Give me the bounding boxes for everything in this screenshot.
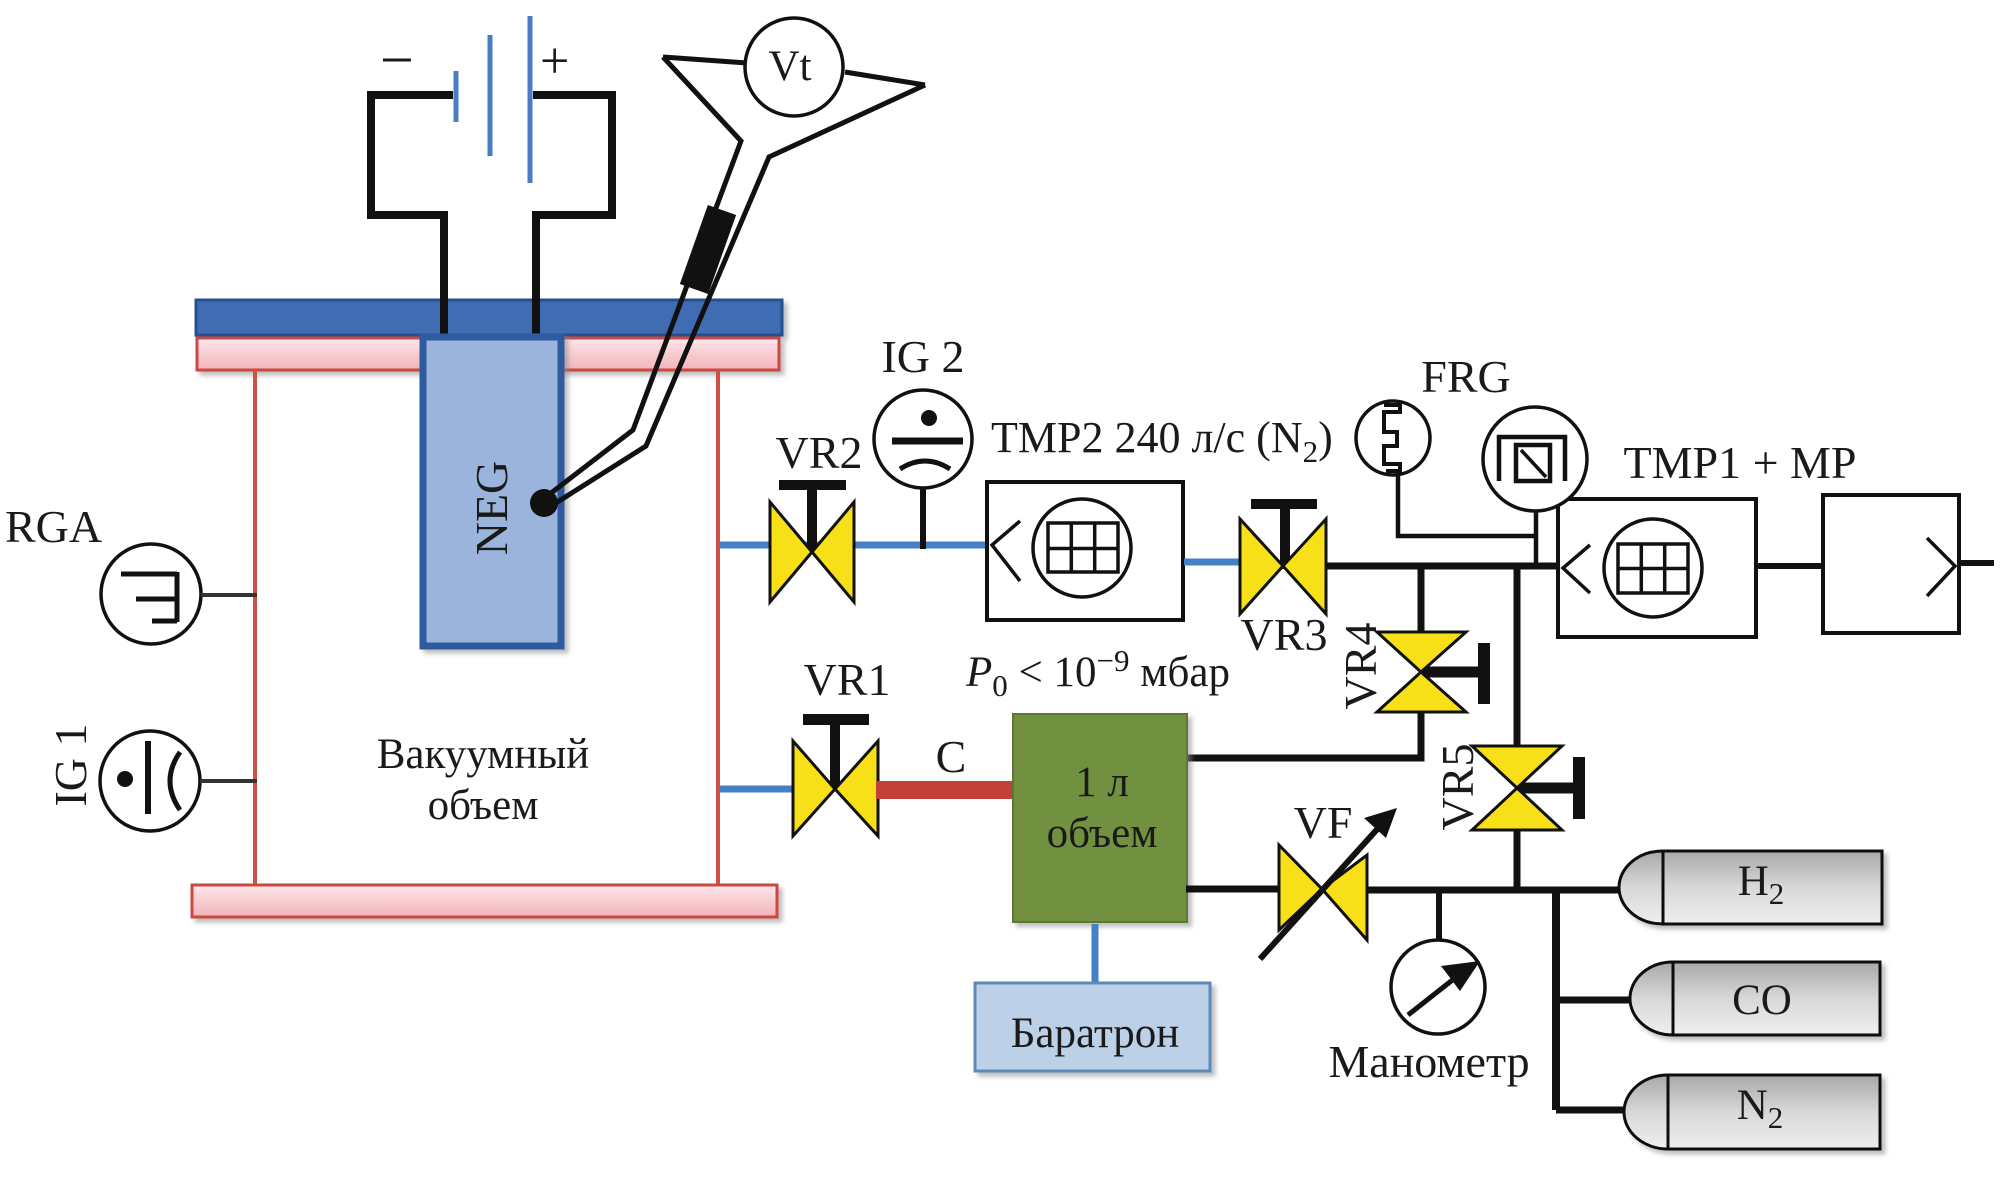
valve VR5 (vertical) xyxy=(1472,746,1585,830)
battery plate long 2 xyxy=(528,16,533,183)
manometer stem xyxy=(1436,890,1442,941)
TMP2 rotor grid xyxy=(1048,523,1118,572)
svg-text:VF: VF xyxy=(1294,797,1353,848)
TMP2 rotor circle xyxy=(1033,499,1131,597)
svg-text:VR3: VR3 xyxy=(1241,609,1328,660)
svg-text:Vt: Vt xyxy=(769,43,812,90)
pipe VR5 to manifold xyxy=(1514,830,1521,890)
chamber left wall xyxy=(253,370,257,885)
TMP1 rotor grid xyxy=(1618,544,1688,593)
1 L volume green box xyxy=(1013,714,1187,922)
svg-text:IG 2: IG 2 xyxy=(881,331,964,382)
RGA gauge circle xyxy=(101,544,201,644)
IG2 gauge circle xyxy=(874,390,972,488)
TMP2 box xyxy=(987,482,1183,620)
thermocouple link right to meter xyxy=(845,72,925,85)
IG1 connector wire xyxy=(200,779,257,783)
svg-text:Вакуумный: Вакуумный xyxy=(377,731,590,778)
svg-text:VR2: VR2 xyxy=(776,427,863,478)
RGA connector wire xyxy=(201,593,257,597)
TMP2 inlet chevron xyxy=(992,521,1020,581)
valve VR3 xyxy=(1240,499,1326,614)
gas manifold horizontal pipe xyxy=(1367,887,1622,894)
thermocouple funnel left outline xyxy=(542,57,741,500)
valve VR1 xyxy=(793,714,878,836)
thermocouple sleeve xyxy=(694,210,722,289)
gas manifold vertical pipe xyxy=(1552,890,1560,1110)
Baratron box xyxy=(975,983,1210,1071)
TMP1 box xyxy=(1558,499,1756,637)
valve VR2 xyxy=(770,480,854,602)
svg-text:TMP1 + MP: TMP1 + MP xyxy=(1623,437,1856,488)
chamber top pink bar xyxy=(197,338,779,370)
IG2 stem xyxy=(920,488,926,549)
CO branch pipe xyxy=(1556,997,1630,1004)
IG1 symbol arc xyxy=(170,752,180,810)
MP symbol diagonal xyxy=(1521,450,1546,477)
pipe 1L volume to VF xyxy=(1186,886,1284,893)
wire battery left to NEG xyxy=(371,95,453,345)
CO gas cylinder xyxy=(1630,962,1880,1035)
svg-text:IG 1: IG 1 xyxy=(45,723,96,806)
wire battery right to NEG xyxy=(533,95,612,345)
TMP1 inlet chevron xyxy=(1563,545,1590,593)
battery plate short (negative) xyxy=(454,71,459,122)
thermocouple contact dot xyxy=(530,489,558,517)
svg-text:+: + xyxy=(540,33,569,90)
exhaust line xyxy=(1959,560,1994,566)
Baratron stem (blue) xyxy=(1092,924,1099,983)
svg-text:объем: объем xyxy=(428,782,539,829)
MP symbol outer xyxy=(1499,437,1565,481)
NEG block xyxy=(423,337,561,646)
pipe VR4 to 1L volume xyxy=(1186,712,1421,758)
N2 branch pipe xyxy=(1556,1107,1626,1114)
backing pump box MP xyxy=(1823,495,1959,633)
svg-text:FRG: FRG xyxy=(1421,351,1510,402)
battery plate long 1 xyxy=(488,35,493,156)
manometer gauge circle xyxy=(1391,940,1485,1034)
pipe TMP1 to backing pump xyxy=(1756,563,1823,569)
IG1 symbol bar xyxy=(145,741,151,814)
svg-text:объем: объем xyxy=(1047,810,1158,857)
N2 gas cylinder xyxy=(1624,1075,1880,1149)
FRG gauge circle xyxy=(1356,401,1430,475)
H2 gas cylinder xyxy=(1619,851,1882,924)
Vt meter circle xyxy=(745,18,843,116)
TMP1 rotor circle xyxy=(1604,519,1702,617)
svg-text:VR4: VR4 xyxy=(1335,623,1386,710)
svg-text:VR1: VR1 xyxy=(804,654,891,705)
RGA symbol xyxy=(121,572,177,622)
FRG symbol xyxy=(1384,405,1400,471)
manometer needle xyxy=(1408,961,1480,1015)
main fore-vacuum pipe VR3 to TMP1 xyxy=(1327,563,1558,570)
chamber right wall xyxy=(716,370,720,885)
IG1 symbol dot xyxy=(117,771,133,787)
svg-text:Баратрон: Баратрон xyxy=(1011,1010,1180,1057)
pipe TMP2 to VR3 (blue) xyxy=(1184,559,1241,566)
svg-text:1 л: 1 л xyxy=(1075,759,1129,806)
backing pump chevron xyxy=(1927,538,1955,596)
svg-text:−: − xyxy=(380,27,414,93)
branch pipe down to VR4 xyxy=(1418,566,1425,634)
svg-text:VR5: VR5 xyxy=(1432,744,1483,831)
IG2 symbol arc xyxy=(900,461,950,469)
MP stem xyxy=(1534,505,1539,566)
pipe chamber to VR1 (blue) xyxy=(719,786,795,793)
IG1 gauge circle xyxy=(100,731,200,831)
svg-text:Манометр: Манометр xyxy=(1328,1036,1529,1087)
valve VF (variable leak) xyxy=(1260,808,1397,959)
svg-text:TMP2 240 л/с (N2): TMP2 240 л/с (N2) xyxy=(991,413,1333,469)
FRG stem xyxy=(1398,471,1536,536)
capillary C (red pipe) xyxy=(876,781,1013,799)
branch pipe down to VR5 xyxy=(1514,566,1521,748)
MP symbol inner square xyxy=(1516,445,1550,481)
thermocouple funnel right outline xyxy=(548,85,925,508)
chamber top flange blue bar xyxy=(196,300,782,335)
valve VR4 (vertical) xyxy=(1377,632,1490,712)
MP gauge circle xyxy=(1483,407,1587,511)
svg-text:RGA: RGA xyxy=(5,501,102,552)
thermocouple link left to meter xyxy=(663,57,747,63)
chamber bottom pink bar xyxy=(192,885,777,917)
IG2 symbol bar xyxy=(892,438,963,445)
svg-text:NEG: NEG xyxy=(466,461,517,556)
svg-text:C: C xyxy=(936,731,967,782)
svg-text:CO: CO xyxy=(1732,977,1792,1024)
IG2 symbol dot xyxy=(921,410,937,426)
pipe chamber to VR2 to TMP2 (blue) xyxy=(719,542,987,549)
